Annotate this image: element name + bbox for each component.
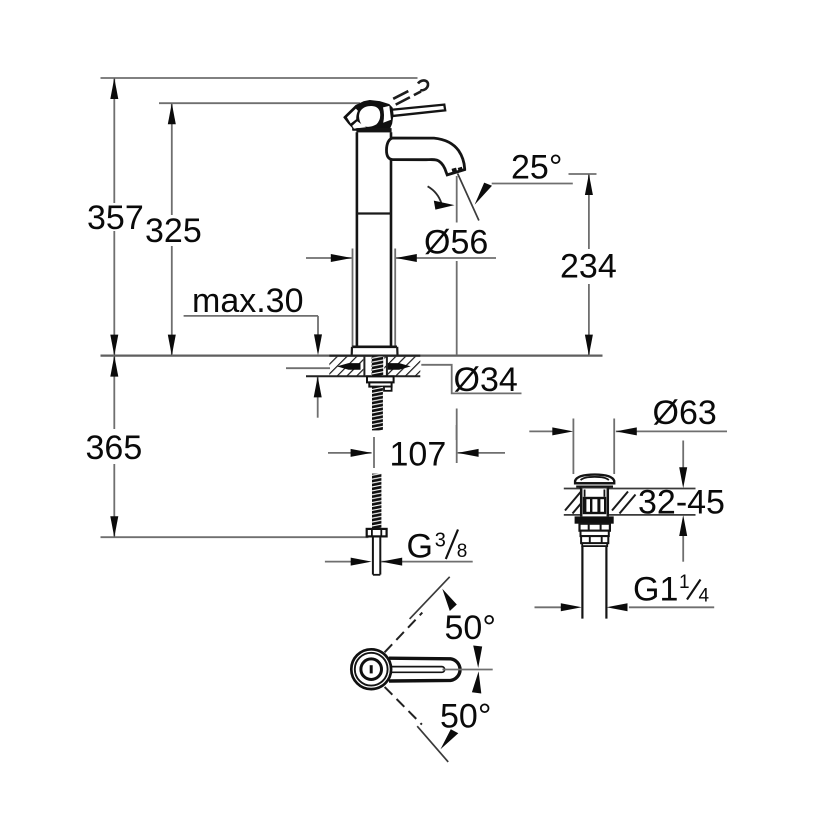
top view upper 50 degree dashed lever position <box>385 577 457 653</box>
svg-text:Ø56: Ø56 <box>424 224 488 262</box>
top view lower 50 degree dashed lever position <box>385 687 459 762</box>
drain valve deck band <box>564 489 696 515</box>
svg-text:357: 357 <box>87 199 144 237</box>
faucet cap bar <box>356 128 391 132</box>
threaded shank through counter <box>372 356 384 376</box>
svg-text:G: G <box>407 528 433 566</box>
faucet lever rod <box>384 105 445 117</box>
svg-text:234: 234 <box>560 247 617 285</box>
top view angle bowtie arrows <box>472 646 482 694</box>
faucet lever knob <box>344 101 393 130</box>
wire: 325 top extension line <box>159 102 360 104</box>
threaded rod below counter <box>372 387 383 431</box>
wire: spout axis vertical leader <box>456 176 458 463</box>
svg-text:50°: 50° <box>445 609 496 647</box>
drain valve body <box>581 489 608 518</box>
svg-text:Ø63: Ø63 <box>653 394 717 432</box>
faucet raised lever dashed <box>393 80 428 104</box>
svg-text:8: 8 <box>457 541 468 562</box>
top view centerline <box>442 669 492 671</box>
drain valve locknut tiers <box>580 524 610 546</box>
drain valve locknut flange <box>575 516 614 523</box>
node: 365 dimension line <box>110 356 118 538</box>
svg-text:Ø34: Ø34 <box>454 361 518 399</box>
faucet base ring <box>352 347 398 355</box>
label G 3/8 <box>407 528 468 566</box>
svg-text:25°: 25° <box>511 149 562 187</box>
mounting nut <box>367 376 394 390</box>
svg-text:365: 365 <box>86 429 143 467</box>
top view hub circles <box>351 649 391 689</box>
node: 32-45 dimension line <box>679 441 687 562</box>
top view lever slot <box>370 667 445 673</box>
drain valve tail tube <box>582 546 606 619</box>
drain valve dome cap <box>575 475 614 489</box>
node: 25 degree angle arc with arrow <box>428 186 455 209</box>
G 3/8 threaded stud <box>372 474 381 529</box>
node: 234 dimension line <box>569 174 597 356</box>
wire: countertop surface line <box>101 355 603 357</box>
svg-text:50°: 50° <box>440 698 491 736</box>
svg-text:4: 4 <box>699 586 710 607</box>
svg-text:3: 3 <box>435 530 446 552</box>
wire: bottom reference line (365) <box>101 536 369 538</box>
node: 107 dimension <box>328 425 505 468</box>
node: diameter 34 label leader <box>286 365 522 394</box>
svg-text:1: 1 <box>679 572 690 593</box>
node: 25 degree leader with arrow <box>475 183 573 205</box>
node: max.30 annotation lines <box>184 316 322 418</box>
countertop hatched section <box>306 356 420 377</box>
node: diameter 56 dimension <box>306 249 496 347</box>
svg-text:max.30: max.30 <box>192 282 304 320</box>
wire: 25 degree tilted outlet axis <box>458 174 479 221</box>
node: diameter 63 dimension <box>529 419 727 475</box>
label G 1 1/4 <box>633 571 710 609</box>
node: 325 dimension line <box>168 103 176 355</box>
node: 357 dimension line <box>110 78 118 356</box>
faucet body column <box>357 132 391 347</box>
top view lever <box>389 658 460 681</box>
node: G 3/8 dimension <box>325 558 473 566</box>
svg-text:107: 107 <box>390 436 447 474</box>
stud collar nut <box>367 529 387 537</box>
svg-text:325: 325 <box>145 212 202 250</box>
node: G 1 1/4 dimension <box>535 603 715 611</box>
wire: 357 top extension line <box>101 77 418 79</box>
svg-text:G1: G1 <box>633 571 678 609</box>
stud tube <box>373 536 380 574</box>
faucet spout <box>386 138 464 175</box>
